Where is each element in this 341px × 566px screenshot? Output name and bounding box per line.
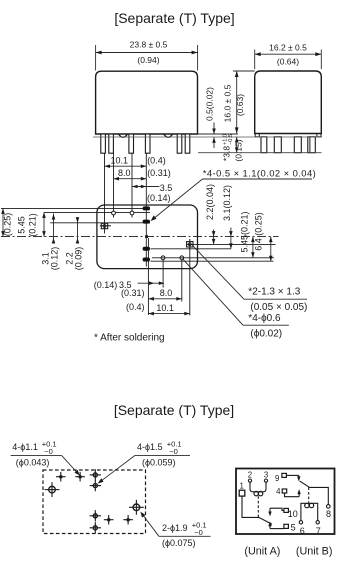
hole 1.1 d [127, 519, 129, 521]
bottom view outline [97, 205, 198, 269]
svg-text:*4-ϕ0.6: *4-ϕ0.6 [248, 313, 281, 324]
dim 16.2 extension lines [254, 50, 256, 70]
dim 2.2 left [77, 217, 79, 244]
wire pin 9 [286, 474, 298, 476]
svg-text:23.8 ± 0.5: 23.8 ± 0.5 [130, 40, 168, 50]
square pad right [187, 242, 193, 247]
terminal slot 1 [143, 206, 150, 210]
contact 10 square [284, 508, 289, 512]
dim 23.8 line [96, 52, 198, 54]
hole 1.1 a [60, 476, 62, 478]
hole 1.5 b [93, 484, 97, 488]
svg-text:1: 1 [240, 481, 244, 490]
pin bottom reference line [198, 152, 322, 154]
row line square right [187, 243, 276, 245]
dim 16.0 height line [233, 70, 255, 72]
svg-text:(0.31): (0.31) [147, 168, 171, 178]
svg-text:6: 6 [300, 526, 305, 536]
dim 16.2 line [255, 53, 322, 55]
dim 3.1 left [53, 214, 55, 244]
dim 3.5 bottom [138, 282, 165, 284]
svg-text:16.0 ± 0.5: 16.0 ± 0.5 [222, 84, 232, 122]
svg-text:5: 5 [291, 522, 296, 532]
dim 10.1 bottom [148, 313, 189, 315]
svg-text:(Unit A): (Unit A) [244, 545, 280, 557]
row line top extended [1, 207, 150, 209]
pin 1 front [101, 134, 106, 153]
circle pad B [130, 211, 134, 215]
svg-text:2: 2 [248, 470, 252, 479]
svg-text:*3.8: *3.8 [221, 146, 231, 161]
baseline after soldering line [93, 136, 322, 138]
dim 2.2 right [213, 230, 215, 245]
leader slot note [203, 178, 313, 180]
dim 5.45 right [252, 237, 254, 258]
hole 1.5 c [93, 514, 97, 518]
ext col 148 down [147, 238, 149, 315]
pin 2 front [109, 134, 114, 153]
hole 1.5 d [93, 526, 97, 530]
ext col 190 down [189, 248, 191, 316]
svg-text:8: 8 [326, 509, 331, 519]
wire pin 5 [270, 528, 284, 530]
pin 1 terminal square [239, 490, 245, 496]
circle pad C [161, 256, 165, 260]
circle pad A [112, 211, 116, 215]
svg-text:* After soldering: * After soldering [94, 332, 165, 343]
svg-text:(0.15): (0.15) [233, 139, 243, 161]
svg-text:(0.63): (0.63) [235, 94, 245, 116]
svg-text:2-ϕ1.9: 2-ϕ1.9 [162, 523, 188, 533]
pin 4 front [145, 134, 150, 153]
svg-text:(ϕ0.075): (ϕ0.075) [162, 538, 196, 548]
wire pin1 to armature [242, 496, 272, 524]
pin 2 circle [248, 479, 251, 482]
svg-text:5.45(0.21): 5.45(0.21) [239, 211, 249, 252]
svg-text:3.1(0.12): 3.1(0.12) [222, 185, 232, 221]
side pin 2 [274, 137, 281, 153]
pin 7 circle [316, 521, 319, 524]
junction dot [145, 235, 148, 238]
pin 8 circle [327, 505, 331, 509]
armature link A dashed [257, 496, 259, 517]
dim 10.1 top [105, 165, 147, 167]
standoff bump left [119, 134, 128, 137]
pcb pattern dashed outline [43, 470, 146, 534]
pin 6 front [185, 134, 190, 153]
relay side view body [255, 71, 322, 134]
svg-text:(0.14): (0.14) [147, 193, 171, 203]
side foot right [317, 134, 321, 137]
hole 1.9 a [49, 486, 56, 493]
armature link B dashed [308, 487, 310, 502]
svg-text:9: 9 [275, 474, 279, 483]
pin 5 front [177, 134, 182, 153]
svg-text:−0: −0 [194, 528, 203, 537]
row line circles left [44, 211, 150, 213]
pin 3 front [129, 134, 134, 153]
leader circle pad note [182, 259, 243, 326]
center dash-dot line [1, 236, 279, 238]
dim 3.1 right [230, 228, 232, 249]
svg-text:10: 10 [288, 509, 298, 519]
arrow toward armature B lower [298, 492, 300, 497]
side pin 4 double [308, 137, 316, 153]
pin column line 4 center [145, 153, 147, 266]
svg-text:4-ϕ1.1: 4-ϕ1.1 [12, 442, 38, 452]
dim 3.8 line [236, 137, 238, 153]
svg-text:2.2(0.04): 2.2(0.04) [205, 184, 215, 220]
svg-text:[Separate (T) Type]: [Separate (T) Type] [114, 402, 234, 418]
svg-text:3: 3 [264, 470, 268, 479]
svg-text:(ϕ0.059): (ϕ0.059) [142, 457, 176, 467]
svg-text:10.1: 10.1 [111, 156, 129, 166]
coil A [250, 482, 266, 492]
svg-text:(0.64): (0.64) [277, 57, 299, 67]
svg-text:0.5(0.02): 0.5(0.02) [205, 87, 215, 121]
svg-text:(0.14): (0.14) [94, 280, 118, 290]
pin 6 circle [299, 521, 302, 524]
svg-text:7: 7 [316, 526, 321, 536]
svg-text:10.1: 10.1 [156, 303, 174, 313]
square pad left [101, 223, 107, 228]
side pin 1 [261, 137, 267, 153]
svg-text:(Unit B): (Unit B) [296, 545, 333, 557]
wire pin 10 [270, 508, 284, 510]
leader 1.5 [135, 454, 190, 456]
dim 5.45 left [43, 212, 45, 236]
svg-text:−0: −0 [169, 447, 178, 456]
terminal slot 3 [143, 247, 150, 251]
pin column line 3 [131, 153, 133, 217]
svg-text:8.0: 8.0 [118, 168, 131, 178]
armature B and wire to pin 8 [300, 481, 329, 505]
svg-text:[Separate (T) Type]: [Separate (T) Type] [114, 10, 234, 26]
svg-text:(0.12): (0.12) [50, 247, 60, 271]
svg-text:−0: −0 [44, 447, 53, 456]
wire pin 4 [285, 493, 300, 497]
svg-text:(0.4): (0.4) [126, 302, 145, 312]
side pin 3 [294, 137, 301, 153]
dim 8.0 top [114, 178, 147, 180]
hole 1.1 c [108, 519, 110, 521]
pin 3 circle [264, 479, 267, 482]
svg-text:(0.25): (0.25) [3, 213, 13, 237]
svg-text:5.45: 5.45 [17, 216, 27, 234]
svg-text:(ϕ0.043): (ϕ0.043) [16, 457, 50, 467]
pin column line 2 [113, 153, 115, 217]
svg-text:*2-1.3 × 1.3: *2-1.3 × 1.3 [248, 287, 300, 298]
hole 1.5 a [93, 473, 97, 477]
svg-text:4-ϕ1.5: 4-ϕ1.5 [137, 442, 163, 452]
dim 8.0 bottom [148, 298, 181, 300]
coil B [301, 503, 318, 520]
row line slot3 right [151, 248, 231, 250]
side foot left [255, 134, 259, 137]
svg-text:3.5: 3.5 [160, 183, 173, 193]
svg-text:(0.31): (0.31) [121, 288, 145, 298]
svg-text:(0.09): (0.09) [74, 247, 84, 271]
svg-text:(0.4): (0.4) [147, 156, 166, 166]
row line bottom right [151, 260, 274, 262]
circle pad D [180, 256, 184, 260]
svg-text:16.2 ± 0.5: 16.2 ± 0.5 [269, 42, 307, 52]
dim 3.5 top [132, 186, 159, 188]
dim 23.8 extension lines [95, 45, 97, 71]
row line square left [50, 222, 150, 224]
svg-text:8.0: 8.0 [160, 288, 173, 298]
dim 6.4 right [270, 237, 272, 262]
leader square pad note [192, 245, 244, 299]
svg-text:(ϕ0.02): (ϕ0.02) [250, 328, 282, 339]
svg-text:(0.94): (0.94) [137, 55, 159, 65]
schematic box [236, 469, 335, 535]
relay front view body [96, 71, 198, 134]
leader 1.1 [11, 454, 62, 456]
dim 0.25 left [2, 208, 4, 236]
arrow toward armature B upper [298, 475, 300, 479]
contact 9 square [282, 473, 287, 477]
svg-text:(0.21): (0.21) [28, 213, 38, 237]
arrow toward NC A [269, 524, 271, 529]
pin column line 1 [104, 153, 106, 233]
ext col 182 down [181, 260, 183, 302]
terminal slot 4 [143, 258, 150, 262]
svg-text:(0.05 × 0.05): (0.05 × 0.05) [250, 302, 307, 313]
row line circles right [152, 257, 274, 259]
arrow toward NO A [269, 508, 271, 513]
contact 5 square [284, 524, 289, 528]
body bottom extension line [198, 133, 239, 135]
svg-text:4: 4 [276, 487, 281, 496]
svg-text:6.4 (0.25): 6.4 (0.25) [253, 212, 263, 251]
hole 1.9 b [133, 504, 140, 511]
hole 1.1 b [79, 476, 81, 478]
standoff bump right [164, 134, 173, 137]
leader 1.9 [159, 535, 211, 537]
svg-text:*4-0.5 × 1.1(0.02 × 0.04): *4-0.5 × 1.1(0.02 × 0.04) [203, 168, 316, 179]
dim 0.5 pin width [213, 123, 215, 135]
ext col 163 down [162, 260, 164, 288]
terminal slot 2 [143, 220, 150, 224]
contact 4 square [282, 489, 287, 493]
